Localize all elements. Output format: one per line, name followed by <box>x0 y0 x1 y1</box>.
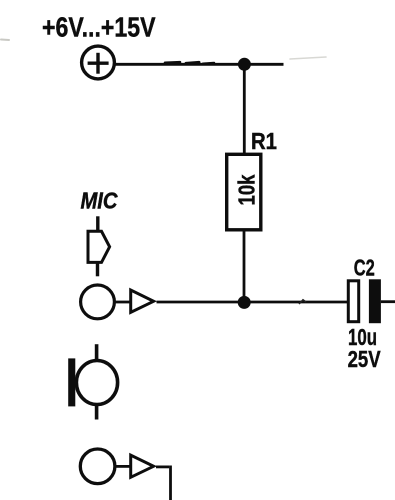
buffer triangle upper <box>131 290 154 312</box>
junction node top <box>238 58 251 71</box>
svg-text:10k: 10k <box>234 174 260 205</box>
microphone symbol <box>68 344 117 419</box>
MIC arrow top tick <box>96 216 99 230</box>
supply source B1 (+) <box>82 46 115 79</box>
wire C2 to right edge <box>381 300 395 303</box>
microphone body circle <box>76 361 117 405</box>
wire corner down to bottom edge <box>169 466 172 500</box>
svg-text:+6V...+15V: +6V...+15V <box>42 12 156 43</box>
svg-text:C2: C2 <box>354 254 375 280</box>
MIC connector arrow symbol <box>88 231 110 262</box>
microphone bottom lead <box>95 405 99 420</box>
input terminal circle <box>81 285 115 319</box>
MIC arrow bottom tick <box>96 263 99 276</box>
wire circle to buffer <box>114 301 130 304</box>
buffer triangle lower <box>131 455 154 477</box>
wire buffer to C2 <box>157 301 348 304</box>
svg-text:MIC: MIC <box>81 187 118 213</box>
wire buffer tip to corner <box>156 465 169 468</box>
microphone bar <box>68 358 75 406</box>
wire blip artifact <box>299 300 306 304</box>
microphone top lead <box>95 344 99 360</box>
resistor R1 body <box>227 154 261 230</box>
wire circle to buffer lower <box>115 465 131 468</box>
wire scan-noise dashes <box>1 40 326 64</box>
svg-text:25V: 25V <box>348 346 382 372</box>
wire R1 bottom to mid junction <box>243 231 246 303</box>
capacitor C2 plus plate (open) <box>348 281 358 322</box>
output terminal circle <box>80 449 115 484</box>
wire junction to R1 top <box>243 64 246 153</box>
capacitor C2 minus plate (filled) <box>369 279 381 323</box>
wire supply to top-right <box>114 63 283 66</box>
junction node mid <box>238 296 251 309</box>
svg-text:R1: R1 <box>251 128 277 154</box>
